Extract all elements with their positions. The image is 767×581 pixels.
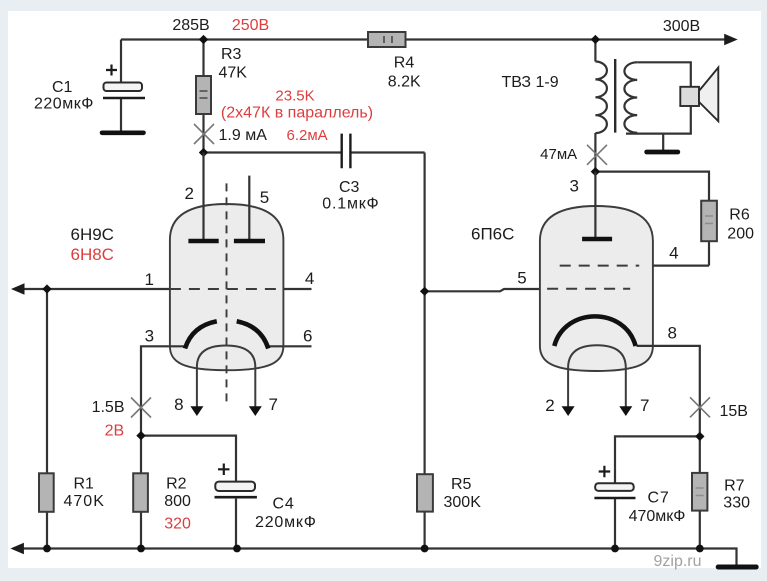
svg-text:6Н8С: 6Н8С xyxy=(71,245,114,264)
svg-text:7: 7 xyxy=(268,395,277,414)
svg-text:5: 5 xyxy=(517,269,526,288)
svg-text:15В: 15В xyxy=(720,403,748,420)
svg-text:250В: 250В xyxy=(232,17,269,34)
svg-text:47мА: 47мА xyxy=(540,146,577,163)
svg-text:4: 4 xyxy=(305,269,314,288)
svg-text:6.2мА: 6.2мА xyxy=(287,127,328,144)
svg-text:300В: 300В xyxy=(663,18,700,35)
svg-text:C7: C7 xyxy=(648,490,670,507)
svg-text:300K: 300K xyxy=(444,494,482,511)
svg-text:220мкФ: 220мкФ xyxy=(255,514,317,531)
svg-text:(2х47К в параллель): (2х47К в параллель) xyxy=(221,105,373,122)
svg-text:6Н9С: 6Н9С xyxy=(71,225,114,244)
svg-text:R3: R3 xyxy=(221,46,242,63)
svg-text:2В: 2В xyxy=(105,423,125,440)
svg-text:2: 2 xyxy=(184,184,193,203)
svg-text:220мкФ: 220мкФ xyxy=(34,95,94,112)
svg-text:8.2K: 8.2K xyxy=(388,74,421,91)
svg-text:3: 3 xyxy=(145,326,154,345)
svg-text:2: 2 xyxy=(545,396,554,415)
svg-text:47K: 47K xyxy=(219,65,248,82)
svg-text:1: 1 xyxy=(144,270,153,289)
svg-text:C1: C1 xyxy=(52,79,73,96)
svg-text:R2: R2 xyxy=(166,476,187,493)
svg-text:C3: C3 xyxy=(339,179,360,196)
svg-text:23.5K: 23.5K xyxy=(275,87,314,104)
svg-text:R7: R7 xyxy=(724,478,745,495)
svg-text:470K: 470K xyxy=(64,493,105,510)
svg-text:6: 6 xyxy=(303,326,312,345)
svg-text:8: 8 xyxy=(174,395,183,414)
svg-text:7: 7 xyxy=(640,396,649,415)
svg-text:6П6С: 6П6С xyxy=(471,225,514,244)
svg-text:5: 5 xyxy=(260,188,269,207)
svg-text:200: 200 xyxy=(727,226,754,243)
svg-text:R6: R6 xyxy=(729,207,750,224)
svg-text:4: 4 xyxy=(669,244,678,263)
svg-text:C4: C4 xyxy=(273,495,295,512)
svg-text:470мкФ: 470мкФ xyxy=(629,508,686,525)
svg-text:320: 320 xyxy=(164,516,191,533)
svg-text:R4: R4 xyxy=(394,55,415,72)
svg-text:9zip.ru: 9zip.ru xyxy=(654,553,702,570)
svg-text:R5: R5 xyxy=(451,476,472,493)
svg-text:330: 330 xyxy=(723,495,750,512)
svg-text:8: 8 xyxy=(667,324,676,343)
svg-text:285В: 285В xyxy=(172,17,209,34)
svg-text:800: 800 xyxy=(164,493,191,510)
svg-text:0.1мкФ: 0.1мкФ xyxy=(322,196,379,213)
svg-text:ТВЗ 1-9: ТВЗ 1-9 xyxy=(502,74,559,91)
svg-text:1.5В: 1.5В xyxy=(92,399,125,416)
svg-text:R1: R1 xyxy=(74,476,95,493)
svg-text:1.9 мА: 1.9 мА xyxy=(219,127,268,144)
svg-text:3: 3 xyxy=(569,177,578,196)
